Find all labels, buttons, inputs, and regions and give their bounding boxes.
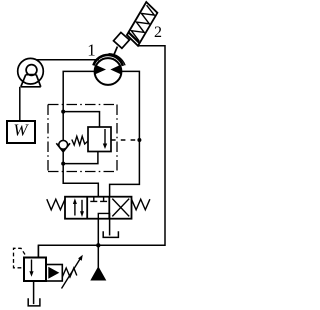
svg-text:1: 1 <box>87 41 96 60</box>
svg-text:2: 2 <box>154 24 162 41</box>
svg-text:W: W <box>13 121 29 140</box>
